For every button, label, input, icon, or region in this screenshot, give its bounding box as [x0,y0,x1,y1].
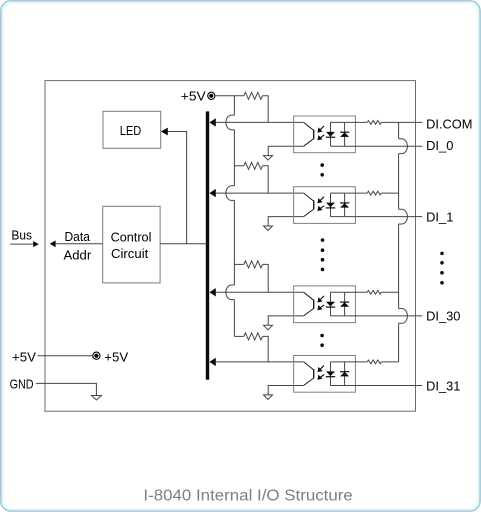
svg-text:Bus: Bus [11,227,32,242]
series resistor (ch1) [367,121,381,125]
ellipsis dots on DI pins column [440,252,444,285]
wire: LED bottom rail to DI_1 pin (ch2) [330,216,422,218]
wire: DI.COM common vertical line with hops [398,122,400,362]
opto-isolator ch2 [294,187,356,224]
wire: riser from control wire up to LED [168,132,187,244]
wire: LED bottom rail to DI_31 pin (ch4) [330,385,422,387]
wire: +5V vertical rail with hops [233,96,235,337]
svg-text:+5V: +5V [12,349,36,364]
wire: LED top rail to series resistor (ch3) [330,291,367,293]
series resistor (ch2) [367,191,381,195]
resistor (pull-up ch1) [244,92,268,122]
back-to-back LED pair (ch3) [326,292,350,316]
arrow into bus bar (ch1) [209,118,215,126]
series resistor (ch3) [367,290,381,294]
I-8040 module boundary box [45,81,416,412]
phototransistor (ch3) [304,292,314,316]
svg-text:DI_31: DI_31 [426,378,460,393]
wire: series resistor to DI common line (ch1) [381,121,422,123]
ground (ch1) [264,156,273,161]
ellipsis dots between ch2 and ch3 [321,238,325,271]
back-to-back LED pair (ch1) [326,122,350,146]
wire: opto emitter to ground (ch3) [268,316,303,325]
svg-text:GND: GND [10,377,34,392]
ellipsis dots between ch1 and ch2 [320,163,324,176]
arrow into bus bar (ch3) [209,288,215,296]
wire: opto emitter to ground (ch4) [268,386,303,395]
wire: bus bar to opto collector (ch2) [216,192,304,194]
wire: series resistor to DI common line (ch2) [381,192,398,194]
resistor (pull-up ch3) [234,261,268,292]
node: +5V terminal (top) [208,92,215,99]
LED block [103,111,161,148]
internal bus bar (thick vertical line) [206,111,209,379]
wire: series resistor to DI common line (ch3) [381,291,398,293]
arrow into bus bar (ch2) [209,189,215,197]
svg-text:DI_0: DI_0 [426,138,453,153]
wire: LED bottom rail to DI_30 pin (ch3) [330,315,422,317]
svg-text:Addr: Addr [64,247,92,262]
opto-isolator ch1 [294,116,356,153]
resistor (pull-up ch2) [234,162,268,193]
arrow into bus bar (ch4) [209,358,215,366]
wire: opto emitter to ground (ch2) [268,217,303,226]
back-to-back LED pair (ch2) [326,193,350,217]
wire: LED top rail to series resistor (ch4) [330,361,367,363]
ground (ch2) [264,226,273,231]
svg-text:+5V: +5V [104,349,128,364]
wire: +5V to pull-up resistors [215,95,244,97]
wire: +5V left to terminal [38,355,93,357]
phototransistor (ch4) [304,362,314,386]
svg-text:DI_1: DI_1 [426,210,453,225]
svg-text:Circuit: Circuit [111,246,149,261]
wire: bus bar to opto collector (ch1) [216,121,304,123]
wire: opto emitter to ground (ch1) [268,146,303,155]
arrow into LED block [161,128,168,136]
phototransistor (ch2) [304,193,314,217]
wire: series resistor to DI common line (ch4) [381,361,398,363]
ellipsis dots between ch3 and ch4 [320,334,324,347]
ground (GND) [92,396,102,401]
svg-text:+5V: +5V [181,88,206,103]
light arrows (ch3) [317,296,324,310]
light arrows (ch4) [317,366,324,380]
wire: LED bottom rail to DI_0 pin (ch1) [330,145,422,147]
wire: bus bar to opto collector (ch4) [216,361,304,363]
svg-text:Data: Data [65,229,91,244]
opto-isolator ch4 [294,356,356,393]
wire: bus bar to opto collector (ch3) [216,291,304,293]
wire: GND to ground symbol [36,383,97,395]
opto-isolator ch3 [294,286,356,323]
phototransistor (ch1) [304,122,314,146]
svg-text:DI_30: DI_30 [426,309,460,324]
control circuit block [103,206,160,283]
wire: LED top rail to series resistor (ch2) [330,192,367,194]
ground (ch3) [264,325,273,330]
ground (ch4) [264,395,273,400]
wire: control circuit to internal bus bar [160,243,206,245]
series resistor (ch4) [367,360,381,364]
node: +5V terminal (left) [93,352,100,359]
svg-text:I-8040 Internal I/O Structure: I-8040 Internal I/O Structure [143,487,352,504]
back-to-back LED pair (ch4) [326,362,350,386]
light arrows (ch2) [317,197,324,211]
data/addr bus arrow (pointing left into box edge) [50,240,103,247]
bus arrow (external, pointing right) [10,241,39,247]
light arrows (ch1) [317,126,324,140]
wire: LED top rail to series resistor (ch1) [330,121,367,123]
resistor (pull-up ch4) [234,333,268,362]
svg-text:DI.COM: DI.COM [426,116,472,131]
svg-text:Control: Control [111,230,152,245]
svg-text:LED: LED [120,123,142,138]
